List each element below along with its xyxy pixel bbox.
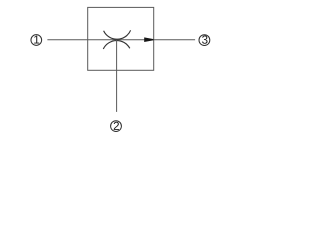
port 2 circle (111, 121, 122, 132)
port 3 circle (199, 35, 210, 46)
venturi nozzle lower arc (103, 41, 130, 49)
port 1 circle (31, 35, 42, 46)
wire port3 lead (154, 39, 195, 41)
vacuum generator body (valve box) (88, 7, 154, 70)
pin number 1 (34, 36, 39, 44)
arrowhead flow direction (144, 37, 153, 42)
wire port2 lead (vertical) (116, 40, 118, 112)
wire port1 lead (47, 39, 87, 41)
pin number 3 (202, 36, 207, 44)
wire internal flow line (88, 39, 150, 41)
venturi nozzle upper arc (104, 30, 131, 39)
pin number 2 (114, 122, 119, 130)
